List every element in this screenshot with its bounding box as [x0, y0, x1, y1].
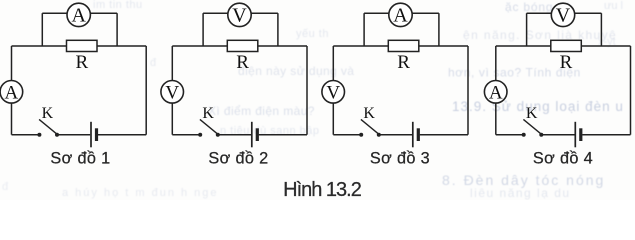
- wire: right conductor circuit 3: [467, 46, 469, 135]
- wire: meter branch right stub circuit 3: [438, 13, 440, 46]
- wire: top conductor circuit 2: [172, 45, 307, 47]
- svg-text:K: K: [42, 105, 54, 122]
- wire: meter branch left stub circuit 2: [202, 13, 204, 46]
- wire: left conductor circuit 3: [332, 46, 334, 135]
- battery (cell) circuit 1: [91, 122, 97, 148]
- svg-text:điện này sử dụng và: điện này sử dụng và: [238, 64, 354, 78]
- wire: bottom left segment to switch circuit 2: [172, 134, 200, 136]
- svg-text:liêu năng lạ du: liêu năng lạ du: [470, 186, 571, 200]
- svg-text:K: K: [202, 105, 214, 122]
- circuit 1: outer loop wires: [12, 13, 147, 135]
- svg-text:a húy họ t m đun h nge: a húy họ t m đun h nge: [62, 187, 219, 199]
- svg-text:K: K: [363, 105, 375, 122]
- wire: meter branch right stub circuit 1: [116, 13, 118, 46]
- svg-text:K: K: [526, 105, 538, 122]
- svg-text:đ: đ: [150, 57, 157, 69]
- wire: meter branch right stub circuit 4: [600, 13, 602, 46]
- wire: bottom segment switch to battery circuit 2: [218, 134, 251, 136]
- svg-text:Sơ đồ 1: Sơ đồ 1: [50, 150, 110, 168]
- battery (cell) circuit 2: [252, 122, 257, 148]
- wire: bottom segment switch to battery circuit 3: [379, 134, 412, 136]
- svg-text:V: V: [326, 82, 340, 103]
- svg-text:Xì điểm điện màu?: Xì điểm điện màu?: [208, 104, 315, 118]
- wire: right conductor circuit 4: [630, 46, 632, 135]
- svg-text:V: V: [556, 5, 571, 27]
- ammeter A (top meter) circuit 3: [389, 3, 412, 27]
- circuit 4: outer loop wires: [496, 13, 631, 135]
- wire: bottom left segment to switch circuit 1: [12, 134, 40, 136]
- wire: left conductor circuit 4: [495, 46, 497, 135]
- wire: meter branch horizontal circuit 2: [203, 12, 278, 14]
- wire: left conductor circuit 1: [11, 46, 13, 135]
- svg-text:im tin thu: im tin thu: [93, 0, 143, 11]
- wire: left conductor circuit 2: [171, 46, 173, 135]
- wire: meter branch left stub circuit 4: [526, 13, 528, 46]
- wire: bottom left segment to switch circuit 4: [496, 134, 524, 136]
- resistor R circuit 1: [67, 40, 98, 51]
- svg-text:Sơ đồ 4: Sơ đồ 4: [533, 150, 593, 168]
- wire: top conductor circuit 4: [496, 45, 631, 47]
- resistor R circuit 4: [551, 40, 582, 51]
- wire: meter branch right stub circuit 2: [277, 13, 279, 46]
- ammeter A (left meter) circuit 1: [0, 81, 23, 104]
- wire: bottom segment switch to battery circuit 1: [57, 134, 90, 136]
- svg-text:R: R: [560, 52, 573, 73]
- wire: meter branch horizontal circuit 1: [42, 12, 117, 14]
- wire: bottom segment switch to battery circuit 4: [541, 134, 574, 136]
- resistor R circuit 2: [227, 40, 257, 51]
- wire: bottom segment battery to right corner circuit 4: [582, 134, 630, 136]
- voltmeter V (top meter) circuit 2: [228, 3, 251, 27]
- wire: right conductor circuit 2: [306, 46, 308, 135]
- svg-text:A: A: [489, 82, 503, 103]
- circuit 2: outer loop wires: [172, 13, 307, 135]
- svg-text:Sơ đồ 3: Sơ đồ 3: [370, 150, 430, 168]
- wire: top conductor circuit 1: [12, 45, 147, 47]
- svg-text:yếu th: yếu th: [296, 28, 329, 40]
- svg-text:A: A: [5, 82, 19, 103]
- wire: meter branch horizontal circuit 4: [527, 12, 602, 14]
- svg-text:A: A: [393, 5, 408, 27]
- ammeter A (top meter) circuit 1: [67, 3, 90, 27]
- svg-text:đ: đ: [2, 181, 9, 193]
- wire: bottom segment battery to right corner circuit 3: [420, 134, 468, 136]
- voltmeter V (left meter) circuit 3: [322, 81, 345, 104]
- switch K circuit 3: [359, 119, 381, 136]
- wire: bottom segment battery to right corner circuit 1: [98, 134, 146, 136]
- switch K circuit 1: [37, 119, 59, 136]
- svg-text:Hình 13.2: Hình 13.2: [283, 179, 362, 200]
- resistor R circuit 3: [388, 40, 419, 51]
- wire: meter branch horizontal circuit 3: [364, 12, 439, 14]
- wire: bottom left segment to switch circuit 3: [333, 134, 361, 136]
- svg-text:R: R: [75, 52, 88, 73]
- wire: meter branch left stub circuit 3: [363, 13, 365, 46]
- svg-text:R: R: [397, 52, 410, 73]
- voltmeter V (left meter) circuit 2: [161, 81, 184, 104]
- svg-text:V: V: [165, 82, 179, 103]
- svg-text:ện năng. Sơn lià khuyê: ện năng. Sơn lià khuyê: [463, 28, 617, 42]
- wire: right conductor circuit 1: [145, 46, 147, 135]
- circuit 3: outer loop wires: [333, 13, 468, 135]
- voltmeter V (top meter) circuit 4: [551, 3, 574, 27]
- battery (cell) circuit 3: [413, 122, 419, 148]
- wire: bottom segment battery to right corner circuit 2: [259, 134, 307, 136]
- svg-text:Sơ đồ 2: Sơ đồ 2: [208, 150, 268, 168]
- switch K circuit 4: [522, 119, 544, 136]
- wire: meter branch left stub circuit 1: [41, 13, 43, 46]
- svg-text:13.9. Sử dụng loại đèn u: 13.9. Sử dụng loại đèn u: [452, 99, 624, 114]
- svg-text:A: A: [71, 5, 86, 27]
- ammeter A (left meter) circuit 4: [484, 81, 507, 104]
- svg-text:V: V: [232, 5, 247, 27]
- svg-text:R: R: [236, 52, 249, 73]
- battery (cell) circuit 4: [575, 122, 581, 148]
- wire: top conductor circuit 3: [333, 45, 468, 47]
- svg-text:ưu l: ưu l: [604, 0, 623, 12]
- switch K circuit 2: [198, 119, 220, 136]
